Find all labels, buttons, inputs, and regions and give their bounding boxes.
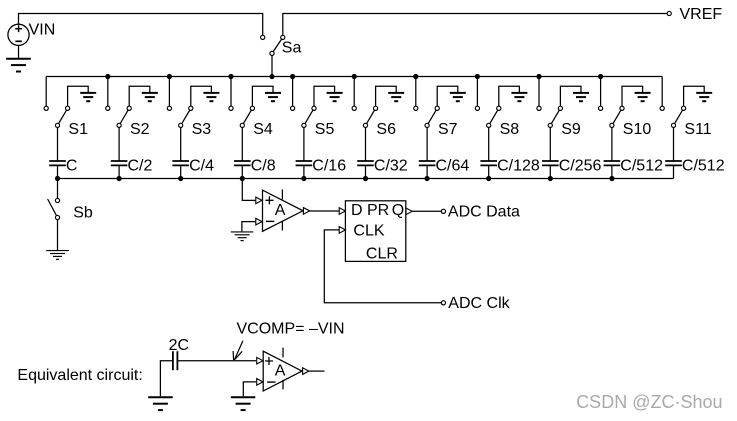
capacitor C/4 (172, 160, 189, 162)
arrow - input (256, 218, 262, 225)
switch S9 (550, 108, 560, 125)
wire 2C left to ground (160, 361, 173, 397)
svg-text:VREF: VREF (680, 6, 723, 23)
minus sign (266, 220, 274, 222)
ground (VIN) (6, 58, 31, 60)
svg-text:S6: S6 (376, 121, 396, 138)
wire S7 pole to capacitor (426, 128, 428, 162)
junction bottom rail 10 (609, 176, 614, 181)
ground wire (S11) (684, 86, 705, 106)
wire capacitor 3 to bottom rail (180, 165, 182, 178)
wire capacitor 7 to bottom rail (426, 165, 428, 178)
junction rail-S5 (290, 74, 295, 79)
arrow comparator output (303, 208, 309, 215)
switch S4 (242, 108, 252, 125)
svg-text:VIN: VIN (29, 21, 56, 38)
wire rail to comparator + input (242, 179, 256, 201)
strobe marks (281, 190, 283, 200)
junction rail-S9 (536, 74, 541, 79)
svg-text:C/4: C/4 (189, 157, 214, 174)
wire top rail (46, 76, 662, 78)
voltage source VIN (8, 24, 29, 45)
svg-text:S8: S8 (500, 121, 520, 138)
wire 2C to comparator (177, 360, 256, 362)
junction Sa-rail (269, 74, 274, 79)
arrow - input (equivalent) (257, 379, 263, 386)
svg-text:C/2: C/2 (128, 157, 153, 174)
svg-text:C/256: C/256 (559, 157, 602, 174)
arrow D input (339, 208, 345, 215)
wire S4 pole to capacitor (241, 128, 243, 162)
ground wire (S1) (68, 86, 89, 106)
junction bottom rail 9 (548, 176, 553, 181)
svg-text:C/64: C/64 (436, 157, 470, 174)
switch Sb (48, 199, 58, 218)
svg-text:D PR: D PR (351, 202, 389, 219)
capacitor C/256 (542, 160, 559, 162)
svg-text:S11: S11 (684, 121, 711, 138)
svg-text:S7: S7 (438, 121, 458, 138)
wire rail stub S11 (661, 77, 663, 107)
wire rail stub S8 (476, 77, 478, 107)
plus sign (equivalent) (265, 357, 273, 365)
switch S10 (612, 108, 622, 125)
svg-text:Q: Q (392, 202, 404, 219)
switch S2 (119, 108, 129, 125)
D flip-flop (345, 201, 405, 262)
arrow output (equivalent) (303, 368, 309, 375)
svg-text:Sa: Sa (282, 39, 302, 56)
wire S10 pole to capacitor (611, 128, 613, 162)
svg-text:C/512: C/512 (620, 157, 663, 174)
ground (S4) (265, 92, 281, 94)
capacitor C/8 (234, 160, 251, 162)
switch S7 (427, 108, 437, 125)
wire rail stub S2 (107, 77, 109, 107)
junction bottom rail 3 (178, 176, 183, 181)
svg-text:Equivalent circuit:: Equivalent circuit: (17, 367, 142, 384)
wire rail stub S5 (292, 77, 294, 107)
capacitor C/512 (665, 160, 682, 162)
junction bottom rail 8 (486, 176, 491, 181)
switch S11 (674, 108, 684, 125)
ground (S10) (635, 92, 651, 94)
wire rail stub S9 (538, 77, 540, 107)
ground wire (S7) (437, 86, 458, 106)
wire VREF line (283, 14, 667, 36)
svg-text:VCOMP= –VIN: VCOMP= –VIN (237, 320, 345, 337)
svg-text:S9: S9 (561, 121, 581, 138)
ground wire (S6) (376, 86, 397, 106)
junction rail-S2 (105, 74, 110, 79)
wire rail stub S1 (45, 77, 47, 107)
ground wire (S4) (252, 86, 273, 106)
svg-text:CLR: CLR (366, 246, 398, 263)
svg-text:C/16: C/16 (312, 157, 346, 174)
svg-text:Sb: Sb (73, 204, 93, 221)
ground (equivalent left) (148, 396, 173, 398)
svg-text:S5: S5 (315, 121, 335, 138)
wire bottom rail (58, 178, 674, 180)
wire Sa pole to top rail (271, 56, 273, 77)
svg-text:C/32: C/32 (374, 157, 408, 174)
ground wire (S10) (622, 86, 643, 106)
junction rail-S8 (475, 74, 480, 79)
svg-text:A: A (275, 202, 286, 219)
svg-text:2C: 2C (169, 337, 189, 354)
ground (S11) (696, 92, 712, 94)
ground wire (S2) (129, 86, 150, 106)
junction bottom rail 7 (425, 176, 430, 181)
wire Q to ADC Data (412, 210, 441, 212)
switch S3 (181, 108, 191, 125)
svg-text:A: A (275, 362, 286, 379)
minus sign (equivalent) (267, 381, 275, 383)
capacitor C/2 (111, 160, 128, 162)
ground (S5) (327, 92, 343, 94)
svg-text:S2: S2 (130, 121, 150, 138)
svg-text:S3: S3 (192, 121, 212, 138)
op-amp comparator A (equivalent) (263, 351, 302, 391)
annotation arrow VCOMP (233, 341, 243, 360)
ground (S7) (450, 92, 466, 94)
wire capacitor 6 to bottom rail (365, 165, 367, 178)
switch S5 (304, 108, 314, 125)
junction bottom rail 4 (240, 176, 245, 181)
wire S11 pole to capacitor (673, 128, 675, 162)
svg-text:ADC Data: ADC Data (448, 204, 520, 221)
ground wire (S5) (314, 86, 335, 106)
wire S5 pole to capacitor (303, 128, 305, 162)
wire S1 pole to capacitor (57, 128, 59, 162)
wire rail stub S7 (415, 77, 417, 107)
junction rail-S7 (413, 74, 418, 79)
wire capacitor 8 to bottom rail (488, 165, 490, 178)
svg-text:CSDN @ZC·Shou: CSDN @ZC·Shou (576, 392, 722, 412)
svg-text:C: C (66, 157, 78, 174)
terminal ADC Data (441, 209, 445, 213)
ground (S9) (573, 92, 589, 94)
wire capacitor 5 to bottom rail (303, 165, 305, 178)
wire Sb to ground (57, 220, 59, 251)
arrow + input (256, 197, 262, 204)
junction bottom rail 6 (363, 176, 368, 181)
switch S6 (366, 108, 376, 125)
switch Sa (272, 37, 283, 53)
strobe marks (equivalent) (282, 348, 284, 358)
wire S2 pole to capacitor (118, 128, 120, 162)
terminal VREF (667, 11, 671, 15)
terminal ADC Clk (441, 301, 445, 305)
ground wire (S8) (499, 86, 520, 106)
switch S1 (58, 108, 68, 125)
svg-text:ADC Clk: ADC Clk (448, 295, 510, 312)
wire rail stub S10 (600, 77, 602, 107)
capacitor C (49, 160, 66, 162)
arrow CLK input (339, 227, 345, 234)
wire rail stub S3 (168, 77, 170, 107)
ground (S8) (511, 92, 527, 94)
svg-text:S1: S1 (68, 121, 88, 138)
wire comparator - input to ground (242, 222, 256, 232)
capacitor C/128 (480, 160, 497, 162)
wire output (equivalent) (309, 370, 325, 372)
capacitor C/16 (296, 160, 313, 162)
ground (S1) (80, 92, 96, 94)
wire VIN bottom to ground (18, 45, 20, 58)
svg-text:S10: S10 (623, 121, 652, 138)
ground (S2) (142, 92, 158, 94)
arrow + input (equivalent) (257, 357, 263, 364)
junction rail-S10 (598, 74, 603, 79)
capacitor C/32 (357, 160, 374, 162)
wire ADC Clk to CLK input (324, 230, 441, 303)
junction bottom rail 2 (117, 176, 122, 181)
plus sign (265, 196, 273, 204)
wire S6 pole to capacitor (365, 128, 367, 162)
arrow Q output (406, 208, 412, 215)
wire S9 pole to capacitor (549, 128, 551, 162)
wire capacitor 9 to bottom rail (549, 165, 551, 178)
svg-text:CLK: CLK (353, 222, 384, 239)
wire S3 pole to capacitor (180, 128, 182, 162)
wire rail stub S4 (230, 77, 232, 107)
wire VIN top to Sa left throw (19, 14, 263, 36)
wire - input to ground (equivalent) (243, 382, 256, 396)
ground (S3) (203, 92, 219, 94)
capacitor C/512 (604, 160, 621, 162)
wire capacitor 10 to bottom rail (611, 165, 613, 178)
switch S8 (489, 108, 499, 125)
junction rail-S6 (352, 74, 357, 79)
svg-text:S4: S4 (253, 121, 273, 138)
op-amp comparator A (263, 190, 304, 231)
ground wire (S9) (560, 86, 581, 106)
capacitor 2C (172, 351, 174, 370)
junction bottom rail 1 (55, 176, 60, 181)
capacitor C/64 (419, 160, 436, 162)
wire rail stub S6 (353, 77, 355, 107)
junction rail-S3 (167, 74, 172, 79)
junction bottom rail 5 (301, 176, 306, 181)
wire capacitor 11 to bottom rail (673, 165, 675, 178)
wire comparator to D input (310, 210, 340, 212)
wire capacitor 2 to bottom rail (118, 165, 120, 178)
ground (S6) (388, 92, 404, 94)
ground wire (S3) (191, 86, 212, 106)
wire rail to Sb (57, 179, 59, 199)
svg-text:C/8: C/8 (251, 157, 276, 174)
svg-text:C/128: C/128 (497, 157, 540, 174)
junction rail-S4 (228, 74, 233, 79)
ground (Sb) (46, 250, 69, 252)
ground (equivalent right) (231, 396, 256, 398)
ground (comparator) (231, 231, 254, 233)
svg-text:C/512: C/512 (682, 157, 725, 174)
wire capacitor 1 to bottom rail (57, 165, 59, 178)
wire S8 pole to capacitor (488, 128, 490, 162)
wire capacitor 4 to bottom rail (241, 165, 243, 178)
